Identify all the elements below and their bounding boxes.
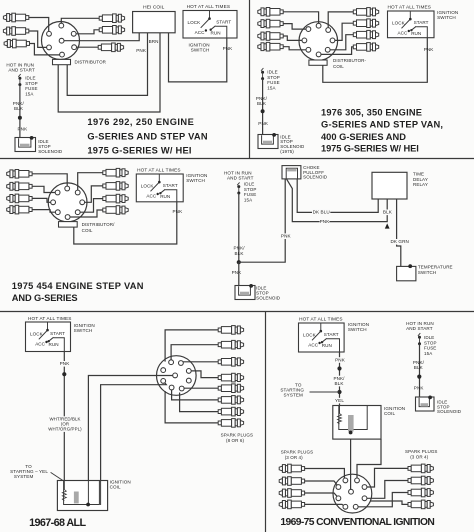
svg-text:WHT/ORG/PPL): WHT/ORG/PPL) [48,427,82,432]
temperature switch panel4 [397,266,416,280]
svg-text:LOCK: LOCK [188,20,202,25]
svg-text:SOLENOID: SOLENOID [303,175,328,180]
spark plug panel1 L2 [26,29,29,33]
svg-text:PNK: PNK [232,270,243,275]
ignition switch panel3 [136,174,183,202]
svg-text:PNK: PNK [320,219,331,224]
svg-text:BLK: BLK [14,106,24,111]
junction panel1 PNK/BLK-PNK [18,116,22,120]
distributor panel5 terminal WNW [161,368,166,373]
svg-text:SPARK PLUGS: SPARK PLUGS [221,432,254,437]
fuse IDLE STOP FUSE 15A panel2 [261,68,263,71]
svg-text:FUSE: FUSE [267,80,279,85]
distributor panel3 terminal R [80,200,85,205]
svg-text:(1975): (1975) [280,149,294,154]
ignition coil panel6 [333,406,381,440]
distributor panel5 terminal ESE [186,378,191,383]
distributor panel5 terminal SSW [169,385,174,390]
svg-text:STOP: STOP [25,81,38,86]
svg-text:RUN: RUN [322,343,332,348]
wire panel4 PNK choke solenoid to time delay relay (BLK) [287,179,388,222]
svg-text:ACC: ACC [35,342,45,347]
svg-text:1975 G-SERIES W/ HEI: 1975 G-SERIES W/ HEI [321,144,419,154]
distributor panel3 terminal LL [55,210,60,215]
junction panel4 choke feed [237,260,241,264]
spark plug panel6 L1 [301,467,304,471]
ignition coil panel5 [57,481,107,511]
label DK GRN panel4 [391,239,409,245]
svg-text:START: START [324,332,339,337]
wire panel5 plug P4 [189,371,218,378]
distributor panel5 terminal NNW [169,360,174,365]
wire panel6 ignition switch to ignition coil [339,352,341,406]
svg-text:AND G-SERIES: AND G-SERIES [12,293,78,303]
svg-text:AND START: AND START [406,326,433,331]
distributor panel3 terminal top [65,186,70,191]
svg-text:LOCK: LOCK [392,21,406,26]
wire panel4 DK GRN relay to temperature switch [397,199,401,266]
svg-text:PNK: PNK [414,386,425,391]
distributor-coil panel3 neck [59,222,78,228]
spark plug panel3 R3 [103,197,106,201]
wire panel3 plug R1 to upper-right terminal [78,173,103,193]
distributor panel6 terminal WSW [336,496,341,501]
spark plug panel1 R3 [98,45,101,49]
distributor panel3 terminal UR [75,190,80,195]
svg-text:LOCK: LOCK [141,184,155,189]
wire panel3 distributor-coil to ignition switch PNK [74,202,177,244]
ignition switch panel6 [299,323,345,352]
distributor panel3 terminal bottom [65,215,70,220]
distributor panel6 terminal SSE [353,504,358,509]
coil terminal wires panel5 [87,481,89,505]
spark plug panel5 P7 [218,410,221,414]
wire panel2 plug L1 to top terminal [283,12,318,26]
wire panel6 plug R3 [356,493,408,507]
wire panel2 fuse to idle stop solenoid [262,79,264,136]
svg-text:IDLE: IDLE [267,70,277,75]
distributor panel1 terminal LL [47,45,52,50]
svg-text:SWITCH: SWITCH [418,270,436,275]
spark plug panel6 L3 [301,491,304,495]
svg-text:G-SERIES AND STEP VAN,: G-SERIES AND STEP VAN, [321,120,443,130]
svg-text:DK GRN: DK GRN [390,239,408,244]
svg-text:DISTRIBUTOR: DISTRIBUTOR [75,59,107,64]
distributor panel2 terminal LR [325,47,330,52]
distributor panel1 terminal center [59,38,64,43]
svg-text:IDLE: IDLE [244,182,254,187]
svg-text:STOP: STOP [267,75,280,80]
wire panel3 plug L4 to lower-left terminal [32,210,58,213]
wire panel5 plug P2 [171,345,218,363]
svg-text:HOT AT ALL TIMES: HOT AT ALL TIMES [388,4,432,9]
distributor panel6 terminal WNW [336,485,341,490]
svg-text:1976 305, 350 ENGINE: 1976 305, 350 ENGINE [321,107,422,117]
wire panel1 center terminal to HEI coil [62,33,140,41]
spark plug panel3 L2 [29,184,32,188]
wire panel3 plug R4 to bottom terminal [68,210,103,217]
spark plug panel5 P2 [218,343,221,347]
distributor panel5 [157,356,197,396]
svg-text:(3 OR 4): (3 OR 4) [410,454,428,459]
coil secondary winding (hatched) panel6 [348,415,354,432]
label DK BLU panel4 [312,209,330,215]
wire panel3 plug L1 to top terminal [32,174,67,189]
distributor panel6 terminal ESE [362,496,367,501]
svg-text:PNK/: PNK/ [13,101,25,106]
svg-text:1969-75 CONVENTIONAL IGNITION: 1969-75 CONVENTIONAL IGNITION [280,517,434,528]
HEI coil panel1 [133,12,176,33]
spark plug panel2 R2 [353,21,356,25]
wire panel4 fuse down to junction [238,193,240,262]
time delay relay panel4 [372,172,407,199]
svg-text:BLK: BLK [257,101,267,106]
svg-text:SOLENOID: SOLENOID [437,409,462,414]
wire panel6 plug L4 [305,504,346,506]
svg-text:15A: 15A [25,91,33,96]
spark plug panel2 L4 [280,45,283,49]
wire panel1 BRN: HEI coil to distributor neck left [58,33,160,112]
panel divider vertical top section [249,0,251,159]
label PNK/BLK panel6 [333,376,346,382]
ignition switch panel5 [26,322,71,352]
wire panel1 plug L2 to lower-left terminal [29,31,49,47]
svg-text:START: START [163,183,178,188]
label PNK relay wire panel4 [320,219,330,225]
svg-text:HEI COIL: HEI COIL [143,4,165,10]
svg-text:HOT AT ALL TIMES: HOT AT ALL TIMES [299,317,343,322]
wire panel2 plug R2 to right terminal [333,23,354,40]
distributor panel5 terminal center [173,373,178,378]
junction panel6 lower (starting system tap) [337,390,341,394]
distributor panel1 neck [53,59,71,64]
distributor-coil panel2 neck [309,60,327,65]
wire panel6 plug R4 [370,501,408,504]
idle stop solenoid panel2 [258,135,278,149]
wire panel2 plug L3 to left terminal [283,36,304,40]
wire panel4 junction to idle stop solenoid [238,262,240,286]
svg-text:AND START: AND START [227,176,254,181]
wire panel2 plug R1 to upper-right terminal [328,12,353,30]
svg-text:COIL: COIL [333,64,344,69]
svg-text:SOLENOID: SOLENOID [38,149,63,154]
wire panel3 plug L2 to upper-left terminal [32,186,58,192]
svg-text:PNK: PNK [173,209,184,214]
spark plug panel3 R2 [103,184,106,188]
spark plug panel3 R1 [103,171,106,175]
svg-text:ACC: ACC [195,30,205,35]
wire panel5 coil to distributor center [88,376,175,482]
svg-text:RUN: RUN [49,342,59,347]
wire panel2 plug L2 to upper-left terminal [283,24,308,30]
svg-text:SOLENOID: SOLENOID [256,296,281,301]
spark plug panel5 P5 [218,386,221,390]
wire panel1 plug L3 to bottom terminal [30,44,63,55]
svg-text:FUSE: FUSE [25,86,37,91]
wire panel4 PNK choke solenoid to junction [239,179,285,262]
svg-text:RUN: RUN [411,31,421,36]
svg-text:COIL: COIL [384,411,395,416]
distributor panel5 terminal ENE [186,369,191,374]
svg-text:AND START: AND START [8,68,35,73]
coil primary winding panel5 [63,481,65,490]
wire panel5 ignition switch to ignition coil [63,352,65,482]
coil primary winding panel6 [339,406,341,414]
svg-text:DISTRIBUTOR-: DISTRIBUTOR- [333,58,367,63]
svg-text:ACC: ACC [146,194,156,199]
label BLK relay wire panel4 [383,210,393,216]
svg-text:ACC: ACC [398,31,408,36]
spark plug panel6 L4 [301,503,304,507]
distributor panel6 terminal NNE [355,478,360,483]
spark plug panel2 L2 [280,22,283,26]
choke pulloff solenoid panel4 [282,166,301,179]
svg-text:BLK: BLK [335,381,345,386]
distributor-coil panel2 [299,22,338,61]
spark plug panel6 R1 [408,467,411,471]
ignition switch panel2 [388,11,435,38]
idle stop solenoid panel4 [235,286,255,300]
spark plug panel3 R4 [103,208,106,212]
distributor panel1 terminal bottom [60,52,65,57]
wire panel6 plug L1 [305,469,345,481]
spark plug panel3 L4 [29,208,32,212]
svg-text:SWITCH: SWITCH [186,178,205,183]
svg-text:BLK: BLK [383,210,393,215]
svg-text:BRN: BRN [149,39,159,44]
spark plug panel1 R2 [99,28,102,32]
spark plug panel6 R3 [408,491,411,495]
coil terminal dot panel6 [349,431,353,435]
panel divider horizontal mid [0,158,474,160]
spark plug panel5 P4 [218,376,221,380]
wire panel6 coil to distributor center [350,433,352,492]
svg-text:PNK: PNK [258,121,269,126]
idle stop solenoid panel6 [416,397,435,411]
spark plug panel3 L1 [29,172,32,176]
spark plug panel6 L2 [301,479,304,483]
svg-text:PNK: PNK [136,48,147,53]
svg-text:1967-68 ALL: 1967-68 ALL [29,517,86,529]
label PNK panel5 [60,361,70,367]
svg-text:COIL: COIL [82,228,93,233]
wire panel1 lower-right terminal to plug R3 [74,46,98,48]
svg-text:COIL: COIL [110,484,121,489]
svg-text:15A: 15A [267,85,275,90]
junction panel6 upper [337,366,341,370]
junction panel2 [261,109,265,113]
distributor panel5 terminal WSW [161,379,166,384]
svg-text:RUN: RUN [211,31,221,36]
wire panel5 plug P3 [181,361,218,363]
wire panel2 plug R4 to bottom terminal [319,47,354,55]
wire panel2 distributor-coil to ignition switch PNK [323,38,428,83]
distributor panel1 terminal UR [71,31,76,36]
svg-text:G-SERIES AND STEP VAN: G-SERIES AND STEP VAN [87,131,208,141]
svg-text:TIME: TIME [413,172,424,177]
wire panel3 plug R2 to right terminal [82,186,103,202]
spark plug panel5 P6 [218,398,221,402]
spark plug panel2 L3 [280,34,283,38]
label YEL panel6 [335,398,345,404]
svg-text:STOP: STOP [244,187,257,192]
wire panel5 plug P1 [165,330,218,362]
svg-text:LOCK: LOCK [303,333,317,338]
svg-text:PNK: PNK [424,47,435,52]
svg-text:400 G-SERIES AND: 400 G-SERIES AND [321,132,406,142]
wire panel5 plug P7 [180,393,219,412]
fuse IDLE STOP FUSE 15A panel4 [237,182,239,185]
wire panel6 coil right to distributor NNE terminal [357,439,381,480]
distributor panel6 terminal center [349,489,354,494]
svg-text:15A: 15A [424,351,432,356]
label PNK choke wire panel4 [281,233,291,239]
spark plug panel5 P8 [218,421,221,425]
distributor panel1 terminal top [59,23,64,28]
distributor panel2 terminal R [330,38,335,43]
wire panel1 fuse to idle stop solenoid [19,85,21,139]
svg-text:IDLE: IDLE [25,76,35,81]
svg-text:HOT AT ALL TIMES: HOT AT ALL TIMES [28,316,72,321]
distributor panel3 terminal L [51,200,56,205]
svg-text:YEL: YEL [335,398,344,403]
svg-text:SYSTEM: SYSTEM [284,393,304,398]
svg-text:PNK: PNK [281,234,292,239]
distributor panel2 terminal LL [306,47,311,52]
panel divider horizontal lower [0,311,474,313]
distributor panel6 [333,474,372,513]
wire panel3 plug L3 to left terminal [32,198,53,202]
spark plug panel1 L3 [26,42,29,46]
spark plug panel2 R1 [353,10,356,14]
distributor panel3 terminal UL [55,190,60,195]
spark plug panel2 R4 [353,45,356,49]
svg-text:START: START [216,20,231,25]
spark plug panel6 R2 [408,479,411,483]
wire panel1 PNK: ignition switch to HEI coil [169,33,227,82]
distributor panel3 terminal LR [75,210,80,215]
distributor panel2 terminal top [316,23,321,28]
spark plug panel6 R4 [408,503,411,507]
distributor panel6 terminal SSW [343,504,348,509]
connector arrow BLK wire panel4 [385,223,390,228]
spark plug panel3 L3 [29,197,32,201]
wire panel1 PNK: HEI coil to distributor neck right [67,33,147,96]
svg-text:1975 454 ENGINE STEP VAN: 1975 454 ENGINE STEP VAN [12,281,144,291]
svg-text:PNK: PNK [335,357,346,362]
svg-text:(3 OR 4): (3 OR 4) [285,455,303,460]
wire panel5 plug P8 [165,391,218,423]
wire panel2 plug L4 to lower-left terminal [283,47,308,50]
spark plug panel5 P3 [218,360,221,364]
wire panel6 plug L3 [305,493,339,498]
svg-text:BLK: BLK [414,365,424,370]
svg-text:SWITCH: SWITCH [74,328,93,333]
spark plug panel1 R1 [99,16,102,20]
wire panel5 plug P5 [182,387,219,389]
svg-text:PNK: PNK [223,46,234,51]
svg-text:1975 G-SERIES W/ HEI: 1975 G-SERIES W/ HEI [87,145,191,155]
distributor panel1 terminal UL [47,31,52,36]
svg-text:(8 OR 6): (8 OR 6) [226,438,244,443]
svg-text:HOT AT ALL TIMES: HOT AT ALL TIMES [137,167,181,172]
distributor panel2 terminal bottom [316,52,321,57]
label WHT/RED/BLK (OR WHT/ORG/PPL) panel5 [49,416,80,421]
svg-text:RELAY: RELAY [413,182,428,187]
distributor-coil panel3 [48,183,87,222]
svg-text:ACC: ACC [308,343,318,348]
wire panel6 plug R2 [365,481,409,499]
wire panel1 upper-right terminal to plug R2 [74,30,100,34]
wire panel1 top terminal to plug R1 [61,18,99,25]
wire panel5 coil to distributor WSW terminal [101,381,167,482]
fuse IDLE STOP FUSE 15A panel6 [418,333,420,336]
svg-text:FUSE: FUSE [244,192,256,197]
svg-text:PNK: PNK [60,361,71,366]
svg-text:DISTRIBUTOR/: DISTRIBUTOR/ [82,222,116,227]
panel divider vertical bottom section [265,312,267,532]
svg-text:BLK: BLK [235,251,245,256]
svg-text:RUN: RUN [160,194,170,199]
svg-text:START: START [50,331,65,336]
spark plug panel2 L1 [280,10,283,14]
wire panel5 plug P6 [172,388,219,400]
idle stop solenoid panel1 [15,138,36,152]
distributor panel2 terminal L [302,38,307,43]
label PNK panel6 [335,357,345,363]
distributor panel1 terminal LR [72,45,77,50]
svg-text:SWITCH: SWITCH [191,47,210,52]
svg-text:DELAY: DELAY [413,177,428,182]
svg-text:SWITCH: SWITCH [348,327,367,332]
svg-text:15A: 15A [244,197,252,202]
junction panel6 right column [417,375,421,379]
coil secondary winding (hatched) panel5 [74,492,79,504]
distributor panel6 terminal ENE [362,485,367,490]
distributor panel5 terminal SSE [179,386,184,391]
svg-text:PNK: PNK [18,127,29,132]
distributor panel5 terminal NNE [179,361,184,366]
distributor panel1 [42,22,80,60]
distributor panel2 terminal UR [326,28,331,33]
svg-text:START: START [414,20,429,25]
wire panel6 plug L2 [305,481,339,487]
wire panel6 fuse to idle stop solenoid [419,344,421,398]
wire panel2 plug R3 to lower-right terminal [328,35,354,50]
svg-text:1976 292, 250 ENGINE: 1976 292, 250 ENGINE [87,117,194,127]
wire panel6 plug R1 [365,468,409,487]
wire panel1 plug L1 to distributor upper-left terminal [29,18,49,34]
distributor panel6 terminal NNW [343,478,348,483]
distributor panel2 terminal UL [306,27,311,32]
svg-text:TEMPERATURE: TEMPERATURE [418,264,453,269]
ignition switch panel1 [183,11,237,39]
svg-text:SWITCH: SWITCH [437,15,456,20]
wire panel6 to starting system [310,391,340,393]
wire panel3 plug R3 to lower-right terminal [78,199,103,213]
spark plug panel5 P1 [218,328,221,332]
fuse IDLE STOP FUSE 15A panel1 [18,74,20,77]
svg-text:DK BLU: DK BLU [313,210,330,215]
svg-text:LOCK: LOCK [30,332,44,337]
junction panel5 [62,372,66,376]
svg-text:SYSTEM: SYSTEM [14,474,34,479]
wire panel4 DK BLU choke solenoid to time delay relay [297,179,378,213]
leader line YEL to coil wire panel5 [51,472,65,481]
svg-text:HOT AT ALL TIMES: HOT AT ALL TIMES [187,4,231,9]
spark plug panel1 L1 [26,16,29,20]
spark plug panel2 R3 [353,33,356,37]
